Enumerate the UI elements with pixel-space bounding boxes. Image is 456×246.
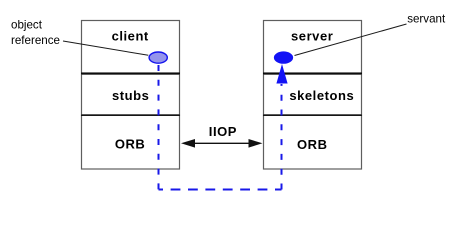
svg-text:object: object — [11, 19, 43, 32]
svg-text:stubs: stubs — [112, 88, 149, 103]
svg-text:client: client — [112, 28, 149, 43]
wire: dark separator stubs/ORB — [81, 114, 180, 116]
box client — [82, 21, 180, 74]
svg-text:IIOP: IIOP — [209, 124, 237, 139]
wire: dark separator skeletons/ORB — [263, 114, 362, 116]
box ORB left — [82, 115, 180, 169]
node: object reference ellipse (light blue) — [149, 52, 167, 63]
wire: leader line from servant label to ellipse — [295, 24, 407, 56]
box ORB right — [264, 115, 362, 169]
wire: leader line from object reference label to ellipse — [63, 41, 148, 55]
wire: blue dashed horizontal along the bottom — [159, 189, 282, 191]
svg-text:server: server — [291, 29, 333, 44]
wire: IIOP double-headed arrow — [192, 142, 251, 144]
wire: dark separator server/skeletons — [263, 72, 362, 74]
wire: dark separator client/stubs — [81, 72, 180, 74]
svg-text:ORB: ORB — [297, 137, 328, 152]
box server — [264, 21, 362, 74]
svg-text:ORB: ORB — [115, 137, 146, 152]
box skeletons — [264, 74, 362, 115]
svg-text:reference: reference — [11, 34, 60, 47]
svg-text:skeletons: skeletons — [289, 88, 354, 103]
wire: blue dashed vertical up to the servant arrow — [281, 84, 283, 190]
wire: blue dashed vertical from object reference ellipse down — [158, 65, 160, 190]
arrowhead: solid blue triangle pointing up at servant — [276, 64, 287, 84]
svg-text:servant: servant — [407, 12, 446, 25]
node: servant ellipse (solid blue) — [274, 51, 293, 63]
box stubs — [82, 74, 180, 115]
